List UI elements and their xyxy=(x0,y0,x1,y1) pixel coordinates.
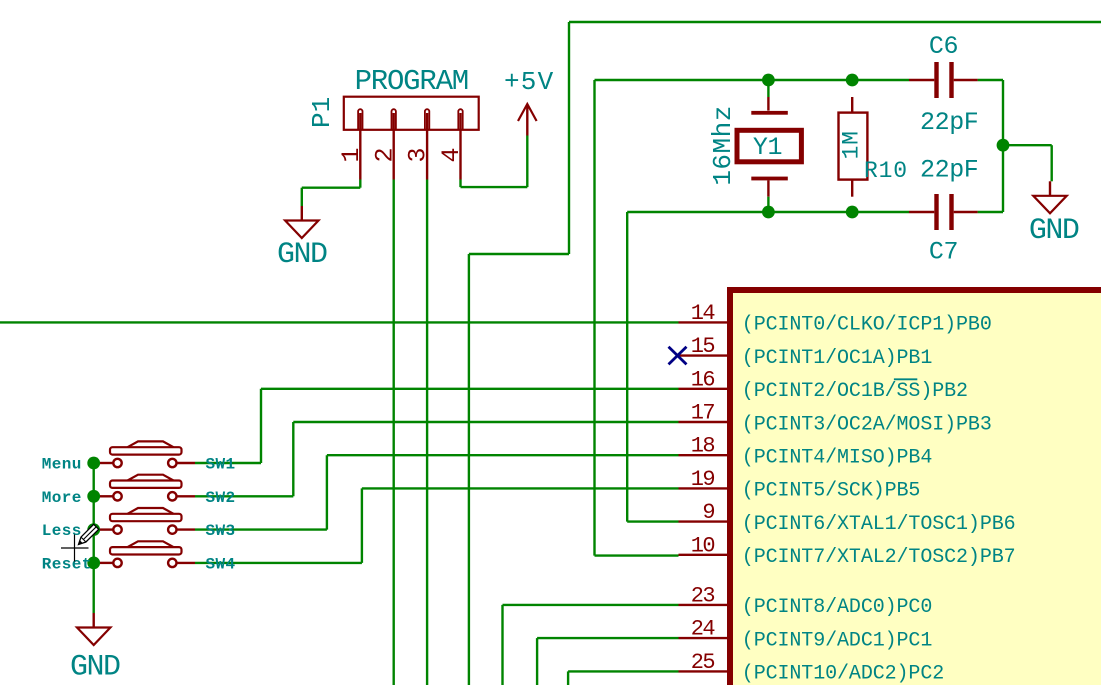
svg-text:(PCINT7/XTAL2/TOSC2)PB7: (PCINT7/XTAL2/TOSC2)PB7 xyxy=(742,546,1016,569)
svg-text:(PCINT10/ADC2)PC2: (PCINT10/ADC2)PC2 xyxy=(742,663,944,685)
wire SW3 to pin 18 xyxy=(195,528,327,530)
wire P1 pin1 to GND xyxy=(359,180,361,188)
svg-text:SW3: SW3 xyxy=(206,522,236,540)
junction More xyxy=(87,490,100,503)
wire to pin 23 xyxy=(501,605,503,685)
svg-text:19: 19 xyxy=(691,467,715,492)
svg-text:25: 25 xyxy=(691,650,715,675)
power +5V xyxy=(526,106,528,136)
P1 pin 3 xyxy=(425,109,429,130)
wire SW1 to pin 16 xyxy=(195,462,261,464)
svg-text:P1: P1 xyxy=(307,97,337,128)
svg-text:22pF: 22pF xyxy=(920,155,978,184)
junction caps GND xyxy=(997,139,1010,152)
junction R10 top xyxy=(846,74,859,87)
svg-text:18: 18 xyxy=(691,434,715,459)
svg-text:SW4: SW4 xyxy=(206,555,236,573)
svg-text:Reset: Reset xyxy=(42,555,92,573)
svg-text:15: 15 xyxy=(691,334,715,359)
wire to pin 24 xyxy=(536,638,538,685)
pin 17 xyxy=(679,421,728,423)
wire P1 pin2 down xyxy=(393,180,395,685)
svg-text:GND: GND xyxy=(70,651,120,685)
wire vertical to bottom edge xyxy=(468,254,470,685)
wire SW2 to pin 17 xyxy=(195,495,293,497)
svg-text:Y1: Y1 xyxy=(753,133,782,162)
svg-text:(PCINT3/OC2A/MOSI)PB3: (PCINT3/OC2A/MOSI)PB3 xyxy=(742,413,992,436)
svg-text:GND: GND xyxy=(1029,214,1079,248)
svg-text:1M: 1M xyxy=(838,130,864,159)
switch SW4 xyxy=(100,562,114,564)
switch SW2 xyxy=(100,495,114,497)
svg-text:1: 1 xyxy=(337,147,366,162)
wire P1 pin4 to +5V xyxy=(459,180,461,188)
svg-text:14: 14 xyxy=(691,301,716,326)
switch SW1 xyxy=(100,462,114,464)
svg-text:Less: Less xyxy=(42,522,82,540)
svg-text:(PCINT6/XTAL1/TOSC1)PB6: (PCINT6/XTAL1/TOSC1)PB6 xyxy=(742,513,1016,536)
wire C7 right to vertical xyxy=(978,211,1003,213)
svg-text:SW2: SW2 xyxy=(206,489,236,507)
wire crystal top rail xyxy=(595,79,910,81)
svg-text:PROGRAM: PROGRAM xyxy=(355,65,468,98)
svg-text:2: 2 xyxy=(370,147,399,162)
P1 pin 2 xyxy=(392,109,396,130)
pin 24 xyxy=(679,637,728,639)
pin 18 xyxy=(679,454,728,456)
pin 10 xyxy=(679,554,728,556)
svg-text:(PCINT1/OC1A)PB1: (PCINT1/OC1A)PB1 xyxy=(742,347,933,370)
svg-text:17: 17 xyxy=(691,401,715,426)
pin 23 xyxy=(679,604,728,606)
svg-text:(PCINT5/SCK)PB5: (PCINT5/SCK)PB5 xyxy=(742,480,921,503)
pin 14 xyxy=(679,321,728,323)
svg-text:R10: R10 xyxy=(864,158,908,184)
wire to pin 25 xyxy=(567,671,569,685)
svg-text:SW1: SW1 xyxy=(206,456,236,474)
svg-text:22pF: 22pF xyxy=(920,108,978,137)
svg-text:C6: C6 xyxy=(929,32,958,61)
junction R10 bottom xyxy=(846,206,859,219)
svg-text:(PCINT8/ADC0)PC0: (PCINT8/ADC0)PC0 xyxy=(742,596,932,619)
resistor R10 xyxy=(851,97,853,113)
wire XTAL2 net vertical xyxy=(593,80,595,556)
crystal Y1 xyxy=(767,80,769,97)
pin 15 xyxy=(679,354,728,356)
wire P1 pin3 down xyxy=(426,180,428,685)
wire top +5V rail xyxy=(569,21,1101,23)
wire to pin 10 xyxy=(595,554,679,556)
cursor crosshair xyxy=(61,547,89,549)
junction Y1 top xyxy=(762,74,775,87)
svg-text:23: 23 xyxy=(691,583,715,608)
wire vertical from top rail xyxy=(568,22,570,254)
wire PB0 rail to pin 14 xyxy=(0,321,679,323)
ground P1 xyxy=(301,206,303,221)
wire SW4 to pin 19 xyxy=(195,562,362,564)
junction Less xyxy=(87,523,100,536)
svg-text:(PCINT9/ADC1)PC1: (PCINT9/ADC1)PC1 xyxy=(742,629,933,652)
junction Menu xyxy=(87,457,100,470)
IC U1 ATmega body xyxy=(730,290,1101,685)
switch SW3 xyxy=(100,528,114,530)
pin 19 xyxy=(679,487,728,489)
P1 pin 1 xyxy=(358,109,362,130)
svg-text:3: 3 xyxy=(404,147,433,162)
ground switches xyxy=(92,613,94,628)
cursor pencil xyxy=(79,524,99,544)
wire C6 right to vertical xyxy=(978,79,1003,81)
svg-text:(PCINT2/OC1B/SS)PB2: (PCINT2/OC1B/SS)PB2 xyxy=(742,380,968,403)
P1 pin 4 xyxy=(458,109,462,130)
svg-text:9: 9 xyxy=(702,500,714,525)
capacitor C6 xyxy=(909,79,934,81)
connector P1 body xyxy=(344,97,479,130)
svg-text:24: 24 xyxy=(691,617,716,642)
svg-text:4: 4 xyxy=(437,147,466,162)
svg-text:(PCINT4/MISO)PB4: (PCINT4/MISO)PB4 xyxy=(742,447,932,470)
junction Reset xyxy=(87,557,100,570)
svg-text:10: 10 xyxy=(691,533,715,558)
pin 9 xyxy=(679,520,728,522)
svg-text:C7: C7 xyxy=(929,237,958,266)
svg-text:More: More xyxy=(42,489,82,507)
wire XTAL1 net vertical xyxy=(626,212,628,522)
pin 25 xyxy=(679,670,728,672)
wire caps right vertical xyxy=(1002,80,1004,212)
svg-text:16Mhz: 16Mhz xyxy=(708,105,738,186)
svg-text:(PCINT0/CLKO/ICP1)PB0: (PCINT0/CLKO/ICP1)PB0 xyxy=(742,314,992,337)
svg-text:GND: GND xyxy=(277,238,327,272)
svg-text:16: 16 xyxy=(691,367,715,392)
no-connect pin 15 xyxy=(669,347,687,365)
wire switches GND vertical xyxy=(92,463,94,613)
svg-text:Menu: Menu xyxy=(42,456,82,474)
wire horizontal jog xyxy=(469,253,569,255)
wire crystal bottom rail xyxy=(627,211,909,213)
svg-text:+5V: +5V xyxy=(504,67,554,97)
wire to pin 9 xyxy=(627,520,678,522)
ground caps xyxy=(1049,181,1051,196)
junction Y1 bottom xyxy=(762,206,775,219)
pin 16 xyxy=(679,388,728,390)
wire junction to GND xyxy=(1003,144,1052,146)
capacitor C7 xyxy=(909,211,934,213)
